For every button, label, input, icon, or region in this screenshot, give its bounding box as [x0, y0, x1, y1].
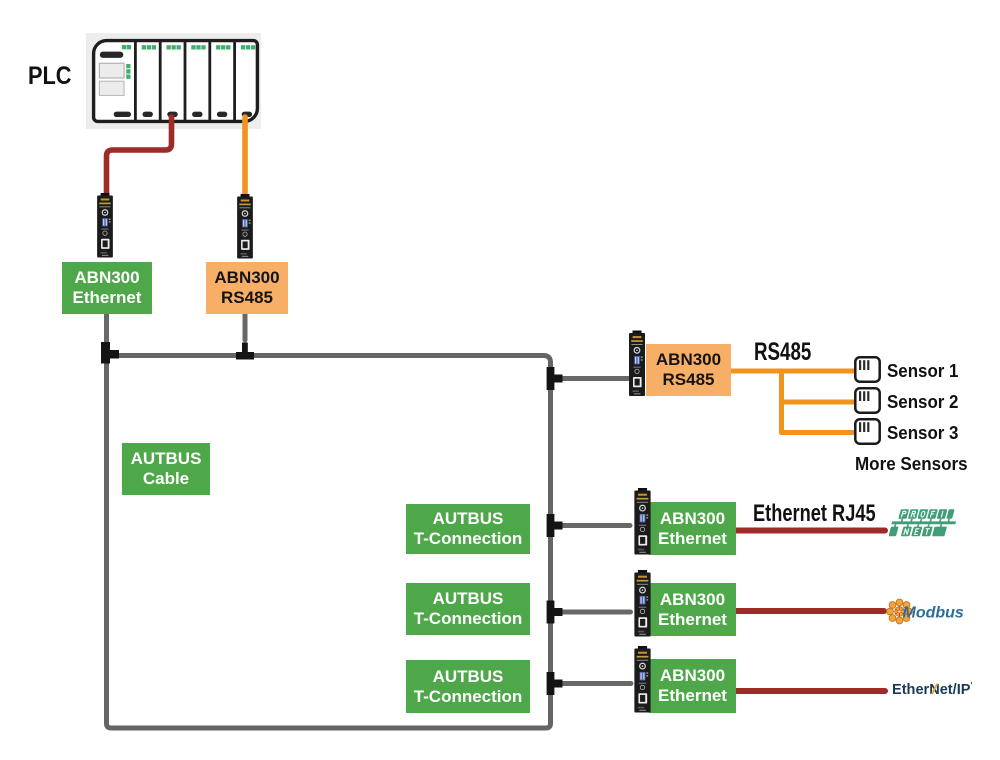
- AUTBUS cable loop: [107, 356, 551, 729]
- EtherNet/IP logo: [892, 681, 972, 698]
- label ABN300 Ethernet (top left): [62, 262, 152, 314]
- sensor 2 icon: [854, 387, 881, 414]
- module separator 3: [184, 41, 187, 121]
- CPU module LEDs: [122, 45, 126, 49]
- PLC rack: [86, 33, 261, 129]
- IO module LEDs and slots: [142, 45, 256, 49]
- PLC backplate: [86, 33, 261, 129]
- label AUTBUS T-Connection 3: [406, 660, 530, 713]
- wire ABN300 Ethernet to bus: [104, 310, 109, 342]
- module separator 2: [159, 41, 162, 121]
- wire row2 to Modbus (dark red): [736, 608, 885, 614]
- PLC label: [28, 62, 72, 91]
- CPU window 1: [99, 63, 124, 78]
- T-connector row 2: [547, 601, 563, 624]
- T-connector row 1: [547, 514, 563, 537]
- T-connector to RS485 branch: [547, 367, 563, 390]
- branch wire to ABN300 Ethernet row 2: [553, 610, 631, 615]
- wire PLC to ABN300 RS485 (orange): [242, 117, 248, 196]
- wire to sensor 3: [782, 430, 855, 435]
- text RS485: [754, 338, 811, 367]
- CPU display slot: [100, 52, 124, 58]
- wire row3 to EtherNet/IP (dark red): [736, 688, 886, 694]
- module separator 5: [233, 41, 236, 121]
- branch wire to ABN300 Ethernet row 3: [553, 681, 631, 686]
- gateway device U1 (ABN300 Ethernet top): [97, 193, 113, 258]
- label AUTBUS Cable: [122, 443, 210, 495]
- label ABN300 RS485 (right): [646, 344, 731, 396]
- sensor 3 icon: [854, 418, 881, 445]
- label AUTBUS T-Connection 2: [406, 583, 530, 635]
- gateway device U2 (ABN300 RS485 top): [237, 194, 253, 259]
- text More Sensors: [855, 453, 968, 475]
- label ABN300 Ethernet row 1: [649, 502, 736, 555]
- wire row1 to PROFINET (dark red): [736, 528, 886, 534]
- PLC chassis outline: [94, 41, 258, 122]
- CPU window 2: [99, 81, 124, 95]
- text Ethernet RJ45: [753, 500, 876, 528]
- wire PLC to ABN300 Ethernet (dark red): [107, 117, 172, 194]
- branch wire to ABN300 Ethernet row 1: [553, 523, 630, 528]
- PROFINET logo: [889, 505, 965, 539]
- text Sensor 2: [887, 392, 958, 413]
- wire ABN300 RS485 to bus: [243, 310, 248, 340]
- label ABN300 Ethernet row 3: [649, 659, 736, 713]
- CPU bottom slot: [114, 112, 131, 117]
- label ABN300 Ethernet row 2: [649, 583, 736, 636]
- branch wire to ABN300 RS485 (right): [553, 376, 628, 381]
- Modbus logo: [885, 596, 975, 628]
- module separator 1: [134, 41, 137, 121]
- module separator 4: [208, 41, 211, 121]
- text Sensor 3: [887, 423, 958, 444]
- svg-text:Modbus: Modbus: [903, 605, 964, 622]
- gateway device U4 (ABN300 Ethernet row 1): [634, 488, 651, 555]
- gateway device U6 (ABN300 Ethernet row 3): [634, 646, 651, 713]
- T-connector row 3: [547, 672, 563, 695]
- label AUTBUS T-Connection 1: [406, 504, 530, 554]
- text Sensor 1: [887, 361, 958, 382]
- CPU LED column: [126, 64, 130, 68]
- label ABN300 RS485 (top): [206, 262, 288, 314]
- wire RS485 to sensors (orange): [731, 369, 854, 374]
- gateway device U3 (ABN300 RS485 right): [629, 330, 645, 397]
- wire to sensor 2: [782, 400, 855, 405]
- sensor 1 icon: [854, 356, 881, 383]
- wire sensor branch vertical: [779, 371, 784, 433]
- T-connector under ABN300 RS485: [236, 343, 254, 360]
- T-connector at left bus top: [101, 342, 119, 364]
- gateway device U5 (ABN300 Ethernet row 2): [634, 570, 651, 637]
